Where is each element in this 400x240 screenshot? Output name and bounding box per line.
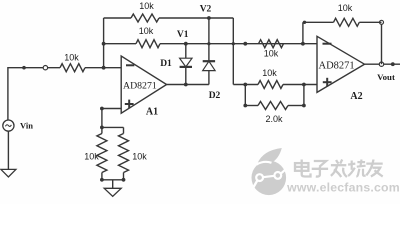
svg-text:D1: D1 bbox=[160, 59, 172, 69]
op-amp A1 plus sign bbox=[125, 103, 134, 105]
wire A1 output rail bbox=[167, 84, 209, 86]
wire feedback riser bbox=[381, 22, 383, 64]
wire V2 drop vertical bbox=[232, 18, 234, 85]
node parallel pair left dot (upper) bbox=[243, 83, 247, 87]
node D2 top junction on V2 rail bbox=[207, 16, 211, 20]
svg-text:D2: D2 bbox=[209, 91, 221, 101]
node parallel pair right dot (upper) bbox=[302, 83, 306, 87]
node D1 bottom junction bbox=[184, 83, 188, 87]
node D1 top junction on V1 rail bbox=[184, 42, 188, 46]
wire V2 rail left segment bbox=[104, 17, 131, 19]
diode D2 (A1 output rail up to V2 rail) bbox=[208, 18, 210, 61]
wire V1 rail left segment bbox=[104, 43, 136, 45]
svg-text:10k: 10k bbox=[262, 68, 277, 78]
diode D1 (V1 rail down to A1 output rail) bbox=[185, 44, 187, 59]
wire A2 output bbox=[365, 63, 400, 65]
wire left resistor to bottom rail bbox=[101, 173, 103, 180]
ground (below Vin) bbox=[1, 169, 16, 177]
node Vout dot bbox=[391, 62, 395, 66]
svg-text:10k: 10k bbox=[139, 26, 154, 36]
wire feedback drop to A2 minus line bbox=[302, 22, 304, 43]
node resistor-pair top junction bbox=[100, 126, 104, 130]
svg-text:10k: 10k bbox=[338, 3, 353, 13]
wire 2.0k lead left bbox=[245, 105, 258, 107]
ground (below resistor pair) bbox=[104, 188, 121, 196]
svg-text:AD8271: AD8271 bbox=[123, 81, 157, 92]
wire branch to right parallel resistor bbox=[102, 126, 124, 128]
node bottom rail right dot bbox=[122, 178, 126, 182]
svg-text:Vout: Vout bbox=[377, 72, 395, 82]
wire upper resistor to right junction bbox=[283, 84, 317, 86]
wire Vin stem lower bbox=[7, 131, 9, 169]
node feedback corner dot bbox=[303, 21, 306, 24]
wire V1 rail to A2 input resistor bbox=[160, 43, 317, 45]
resistor R4 2.0k (A2 plus lower) bbox=[258, 102, 288, 110]
svg-text:www.elecfans.com: www.elecfans.com bbox=[286, 181, 400, 195]
op-amp A2 minus sign bbox=[323, 43, 332, 45]
resistor R2 10k (A2 minus input) bbox=[259, 40, 284, 48]
svg-text:V1: V1 bbox=[177, 30, 189, 40]
node A2 feedback join on inverting line bbox=[301, 42, 305, 46]
node bottom rail left dot bbox=[100, 178, 104, 182]
node crossing blob D2-wire over V1 rail bbox=[207, 42, 210, 45]
resistor Rg-b 10k (right vertical) bbox=[119, 134, 129, 173]
svg-text:AD8271: AD8271 bbox=[319, 61, 355, 72]
watermark text 电子发烧友 (hand-drawn strokes) bbox=[295, 160, 311, 177]
wire 2.0k lead right bbox=[288, 105, 304, 107]
svg-text:2.0k: 2.0k bbox=[265, 114, 283, 124]
watermark logo (elecfans) bbox=[251, 161, 286, 196]
node crossing blob V2-drop over V1 rail bbox=[232, 42, 235, 45]
svg-text:A1: A1 bbox=[146, 107, 158, 118]
wire input from Vin corner bbox=[8, 67, 60, 69]
op-amp A2 AD8271 triangle bbox=[317, 36, 365, 92]
svg-text:10k: 10k bbox=[64, 53, 79, 63]
node left terminal of A2 upper 10k bbox=[243, 42, 247, 46]
wire parallel pair left vertical bbox=[244, 85, 246, 106]
wire input resistor to A1 inverting input bbox=[85, 67, 121, 69]
op-amp A1 minus sign bbox=[126, 64, 134, 66]
wire feedback top rail left bbox=[303, 21, 334, 23]
resistor R5 10k (A2 feedback) bbox=[334, 18, 360, 26]
resistor R-in 10k (input) bbox=[60, 64, 85, 72]
terminal open circle on input wire bbox=[43, 66, 47, 70]
svg-text:V2: V2 bbox=[200, 5, 212, 15]
wire bottom rail of resistor pair bbox=[102, 179, 124, 181]
wire feedback top rail right bbox=[359, 21, 381, 23]
source Vin (sine source circle) bbox=[3, 120, 14, 131]
wire Vin stem upper bbox=[7, 67, 9, 120]
node input junction dot bbox=[22, 66, 26, 70]
terminal open circle at feedback tap bbox=[379, 62, 383, 66]
svg-text:Vin: Vin bbox=[20, 121, 33, 131]
wire vertical rail at A1 input node bbox=[103, 18, 105, 68]
svg-text:10k: 10k bbox=[264, 49, 279, 59]
svg-text:A2: A2 bbox=[350, 91, 362, 102]
resistor Rg-a 10k (left vertical) bbox=[97, 134, 107, 173]
node parallel pair left dot (lower) bbox=[243, 104, 247, 108]
terminal open circle feedback top bbox=[380, 20, 384, 24]
node parallel pair right dot (lower) bbox=[302, 104, 306, 108]
node A1 plus corner dot bbox=[100, 107, 104, 111]
svg-text:10k: 10k bbox=[132, 152, 147, 162]
resistor R-fb1 10k (to V1) bbox=[136, 40, 160, 48]
wire ground stem (resistor pair) bbox=[112, 180, 114, 189]
svg-text:10k: 10k bbox=[139, 1, 154, 11]
wire V2 drop corner to parallel pair bbox=[233, 84, 258, 86]
resistor R-fb2 10k (to V2) bbox=[131, 14, 159, 22]
wire V2 rail right segment bbox=[159, 17, 233, 19]
wire parallel pair right vertical bbox=[303, 85, 305, 106]
op-amp A2 plus sign bbox=[323, 81, 332, 83]
wire right resistor to bottom rail bbox=[123, 173, 125, 180]
svg-text:10k: 10k bbox=[84, 152, 99, 162]
resistor R3 10k (A2 plus upper) bbox=[258, 81, 283, 89]
wire A1 plus drop to resistor pair bbox=[101, 109, 103, 134]
wire A1 plus input horizontal bbox=[102, 108, 121, 110]
node A1 inverting input junction bbox=[102, 66, 106, 70]
node V1-rail / rail junction dot bbox=[102, 42, 106, 46]
op-amp A1 AD8271 triangle bbox=[121, 56, 166, 113]
